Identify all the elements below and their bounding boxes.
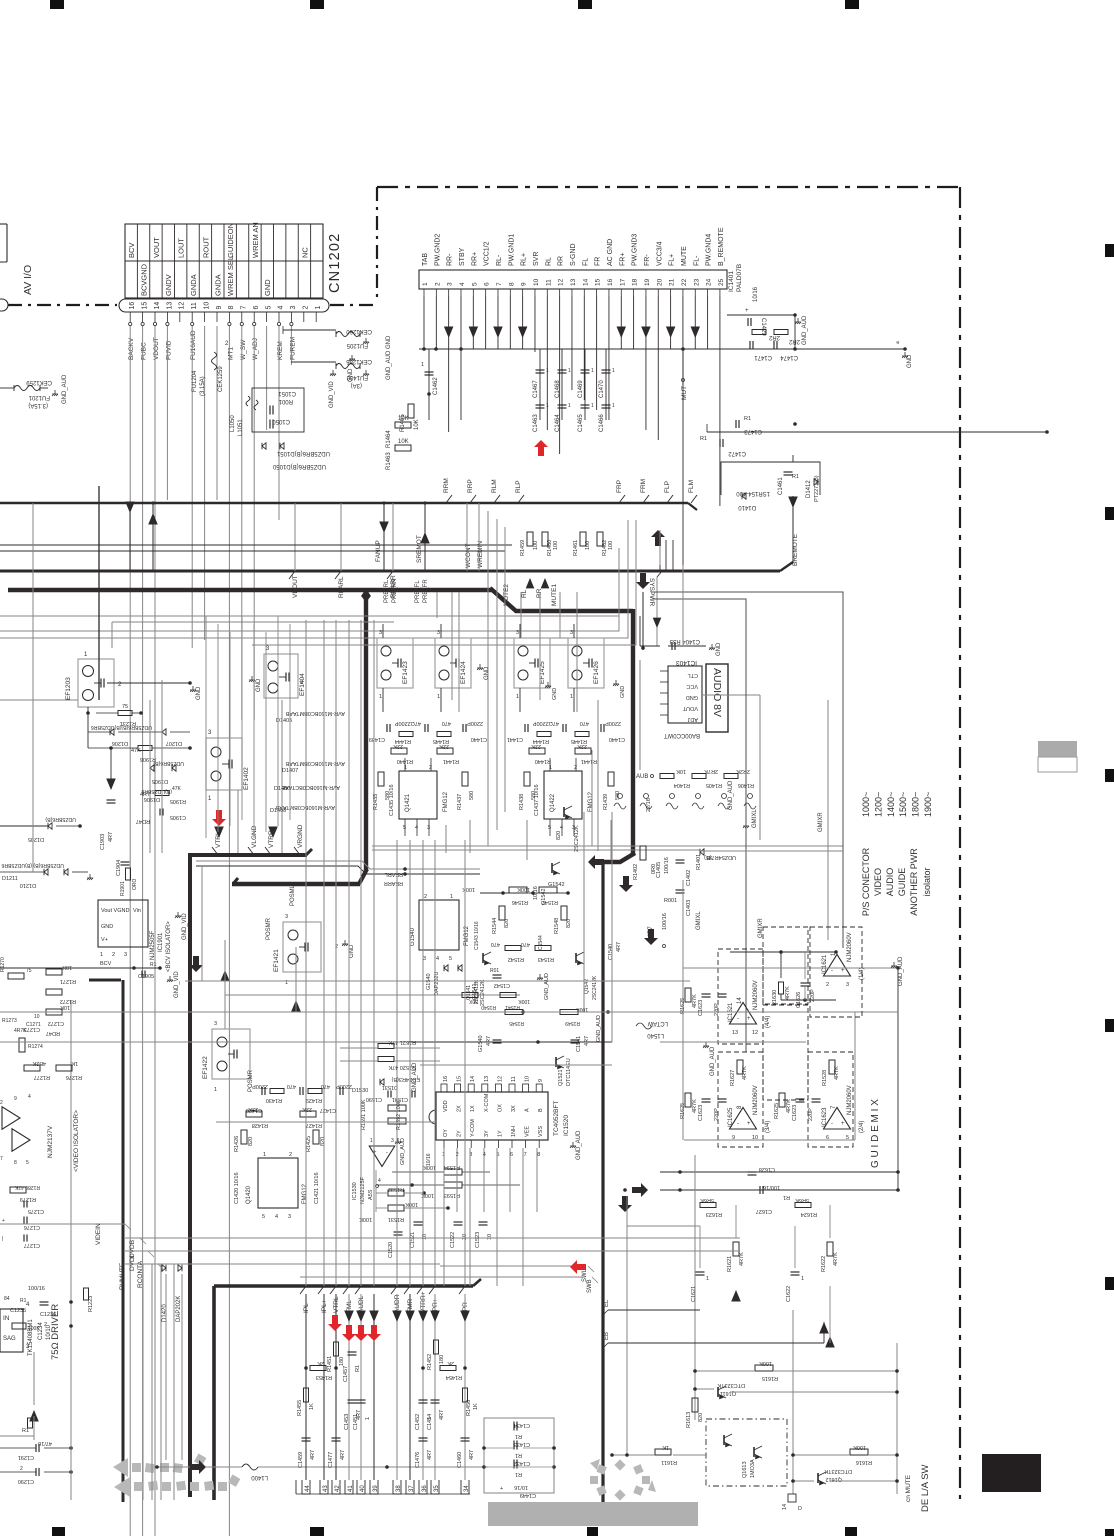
svg-text:IC1625: IC1625 (728, 1107, 734, 1127)
svg-text:PW.GND3: PW.GND3 (632, 234, 639, 266)
svg-text:EDZ4R3(B): EDZ4R3(B) (391, 1076, 420, 1082)
svg-text:24: 24 (706, 278, 713, 286)
svg-text:22K: 22K (248, 1106, 258, 1112)
svg-text:4R7K: 4R7K (742, 1066, 748, 1080)
svg-text:C1291: C1291 (18, 1454, 34, 1460)
svg-text:GND: GND (196, 686, 202, 700)
svg-text:3: 3 (214, 1021, 217, 1027)
svg-text:R1: R1 (700, 436, 707, 442)
svg-text:AC GND: AC GND (607, 239, 614, 266)
svg-text:12: 12 (179, 302, 186, 310)
svg-text:3: 3 (290, 306, 297, 310)
svg-text:<BCV ISOLATOR>: <BCV ISOLATOR> (166, 921, 172, 972)
svg-text:Q1611: Q1611 (720, 1390, 736, 1396)
svg-text:RL: RL (545, 257, 552, 266)
svg-text:C1471: C1471 (754, 354, 772, 360)
svg-text:MUT: MUT (681, 386, 688, 400)
svg-text:22K: 22K (302, 1106, 312, 1112)
svg-text:100/16: 100/16 (763, 1184, 780, 1190)
svg-text:C1452: C1452 (415, 1414, 421, 1430)
svg-text:R1544: R1544 (492, 918, 498, 934)
svg-text:C1544: C1544 (538, 935, 544, 950)
svg-text:38: 38 (396, 1485, 402, 1492)
svg-text:W_SW: W_SW (240, 339, 247, 360)
svg-text:R1273: R1273 (2, 1018, 17, 1024)
svg-text:470: 470 (287, 1083, 296, 1089)
svg-text:4: 4 (560, 825, 563, 831)
svg-text:R1901: R1901 (120, 881, 126, 896)
svg-text:GND: GND (907, 354, 913, 368)
svg-text:5: 5 (471, 282, 478, 286)
svg-text:REARL: REARL (385, 871, 403, 877)
svg-text:FRM: FRM (640, 479, 647, 493)
svg-text:BA00CC0WT: BA00CC0WT (664, 732, 700, 738)
svg-text:SAG: SAG (3, 1336, 16, 1342)
svg-text:2: 2 (826, 982, 829, 988)
svg-text:IC1403: IC1403 (676, 659, 697, 666)
svg-text:GND_AUD: GND_AUD (710, 1046, 716, 1076)
svg-text:4R7K: 4R7K (739, 1252, 745, 1266)
svg-text:RRM: RRM (443, 478, 450, 493)
svg-text:RR+: RR+ (471, 252, 478, 266)
svg-text:C1591: C1591 (392, 1096, 408, 1102)
svg-text:GND_AUD: GND_AUD (596, 1015, 602, 1042)
svg-text:C1467: C1467 (533, 380, 539, 398)
svg-text:3: 3 (285, 914, 288, 920)
svg-text:7: 7 (496, 282, 503, 286)
svg-text:C1434: C1434 (514, 1422, 530, 1428)
svg-text:C1464: C1464 (555, 414, 561, 432)
svg-text:R1: R1 (792, 474, 799, 480)
svg-text:100K: 100K (853, 1444, 866, 1450)
svg-text:MUTE1: MUTE1 (551, 584, 558, 606)
svg-text:R1591 100K: R1591 100K (361, 1099, 367, 1130)
svg-text:BCV: BCV (100, 961, 112, 967)
svg-text:1: 1 (612, 368, 615, 374)
svg-text:5R6K: 5R6K (700, 1197, 714, 1203)
svg-text:820: 820 (504, 919, 510, 928)
svg-text:2: 2 (335, 944, 338, 950)
svg-text:RL-: RL- (496, 254, 503, 266)
svg-text:10K: 10K (62, 964, 72, 970)
svg-text:FU1400: FU1400 (346, 374, 368, 380)
svg-text:NJM2060V: NJM2060V (753, 1085, 759, 1115)
svg-text:1K: 1K (309, 1403, 315, 1410)
svg-text:C1469: C1469 (578, 380, 584, 398)
svg-text:C1466: C1466 (599, 414, 605, 432)
svg-text:0R0: 0R0 (651, 864, 657, 874)
svg-text:CTL: CTL (688, 672, 698, 678)
svg-text:9: 9 (538, 1079, 544, 1082)
svg-text:15: 15 (457, 1076, 463, 1082)
svg-text:PALD07B: PALD07B (736, 264, 743, 292)
svg-text:Q1422: Q1422 (550, 793, 556, 812)
svg-text:21: 21 (669, 278, 676, 286)
svg-text:REARL: REARL (338, 576, 345, 598)
svg-text:R1542: R1542 (508, 956, 524, 962)
svg-text:R1611: R1611 (661, 1459, 677, 1465)
svg-text:FLP: FLP (664, 481, 671, 493)
svg-text:4R7: 4R7 (310, 1450, 316, 1460)
svg-text:1K: 1K (71, 1060, 78, 1066)
svg-text:+: + (500, 1486, 503, 1492)
svg-text:CEK1286: CEK1286 (346, 358, 372, 364)
svg-text:7: 7 (524, 1152, 527, 1158)
svg-text:1900~: 1900~ (923, 792, 933, 817)
svg-text:R1274: R1274 (28, 1044, 43, 1050)
svg-text:A5S: A5S (368, 1189, 374, 1200)
svg-text:2200P: 2200P (605, 720, 621, 726)
svg-text:FRP: FRP (616, 480, 623, 493)
svg-text:2200P: 2200P (467, 720, 483, 726)
svg-text:1K: 1K (662, 1444, 669, 1450)
svg-text:R001: R001 (664, 898, 677, 904)
svg-text:ROUT: ROUT (201, 236, 210, 258)
svg-text:TK15408BM1: TK15408BM1 (28, 1319, 34, 1356)
svg-text:FR+: FR+ (619, 253, 626, 266)
svg-text:100: 100 (553, 541, 559, 550)
svg-text:C1421 10/16: C1421 10/16 (314, 1173, 320, 1205)
svg-text:Vin: Vin (133, 908, 141, 914)
svg-text:1: 1 (801, 1276, 804, 1282)
svg-text:IC1520: IC1520 (563, 1115, 570, 1136)
svg-text:FR: FR (595, 257, 602, 266)
svg-text:40: 40 (360, 1485, 366, 1492)
svg-text:R1441: R1441 (443, 758, 459, 764)
svg-text:R1426: R1426 (234, 1136, 240, 1152)
svg-text:4: 4 (275, 1214, 278, 1220)
svg-text:OY: OY (443, 1129, 449, 1137)
svg-text:RL: RL (521, 589, 528, 598)
svg-text:C1449: C1449 (520, 1492, 536, 1498)
svg-text:IC1623: IC1623 (822, 1107, 828, 1127)
svg-text:DAP202K: DAP202K (176, 1296, 182, 1322)
svg-text:IC1621: IC1621 (822, 954, 828, 974)
svg-text:DE L/A SW: DE L/A SW (920, 1464, 931, 1512)
svg-text:R1547: R1547 (542, 899, 558, 905)
svg-text:580: 580 (531, 791, 537, 800)
svg-text:R1405: R1405 (706, 782, 722, 788)
svg-text:C1403: C1403 (686, 900, 692, 916)
svg-text:7: 7 (0, 1156, 3, 1162)
svg-text:DTC114EU: DTC114EU (566, 1058, 572, 1086)
svg-text:4R7: 4R7 (140, 792, 150, 798)
svg-text:D1205: D1205 (28, 836, 44, 842)
svg-text:R1: R1 (744, 416, 751, 422)
svg-text:R1280 47K: R1280 47K (14, 1184, 40, 1190)
svg-text:GND_AUD: GND_AUD (802, 315, 808, 345)
svg-text:C1476: C1476 (415, 1452, 421, 1468)
svg-text:FMG12: FMG12 (443, 791, 449, 812)
svg-text:3Y: 3Y (484, 1130, 490, 1137)
svg-text:100K: 100K (405, 1201, 418, 1207)
svg-text:FR-: FR- (644, 254, 651, 266)
svg-text:D1210: D1210 (20, 882, 36, 888)
svg-text:R1594: R1594 (444, 1164, 460, 1170)
svg-text:VDOUT: VDOUT (292, 575, 299, 598)
svg-text:22K: 22K (531, 743, 541, 749)
svg-text:4: 4 (28, 1094, 31, 1100)
svg-text:C1051: C1051 (278, 390, 296, 396)
svg-text:RLM: RLM (491, 479, 498, 493)
svg-text:GND: GND (716, 642, 722, 656)
svg-text:PW.GND4: PW.GND4 (706, 234, 713, 266)
svg-text:L1050: L1050 (230, 415, 236, 432)
svg-text:1: 1 (570, 694, 573, 700)
svg-text:3: 3 (437, 630, 440, 636)
svg-text:C1460: C1460 (457, 1452, 463, 1468)
svg-text:5: 5 (449, 956, 452, 962)
svg-text:CN1202: CN1202 (327, 233, 343, 293)
svg-text:2: 2 (574, 765, 577, 771)
svg-text:C1276: C1276 (24, 1224, 40, 1230)
svg-text:R1624: R1624 (801, 1211, 817, 1217)
svg-text:25: 25 (718, 278, 725, 286)
svg-text:EF1423: EF1423 (402, 661, 409, 684)
svg-text:-: - (831, 968, 833, 974)
svg-text:C1905: C1905 (138, 974, 154, 980)
svg-text:C1623: C1623 (792, 1105, 798, 1121)
svg-text:9: 9 (521, 282, 528, 286)
svg-text:(3A): (3A) (351, 382, 362, 388)
svg-text:DTC323TK: DTC323TK (717, 1382, 745, 1388)
svg-text:3: 3 (124, 952, 127, 958)
svg-text:VRGND: VRGND (297, 824, 304, 848)
svg-text:1: 1 (568, 403, 571, 409)
svg-text:C1454: C1454 (427, 1414, 433, 1430)
svg-text:R1: R1 (355, 1365, 361, 1372)
svg-text:1: 1 (568, 368, 571, 374)
svg-text:R1621: R1621 (727, 1256, 733, 1272)
svg-text:VDOUT: VDOUT (153, 337, 160, 360)
svg-text:12: 12 (752, 1030, 758, 1036)
svg-text:NJM2060V: NJM2060V (847, 932, 853, 962)
svg-text:2: 2 (434, 282, 441, 286)
svg-text:NJM2060V: NJM2060V (753, 980, 759, 1010)
svg-text:1000~: 1000~ (861, 792, 871, 817)
svg-text:3: 3 (846, 982, 849, 988)
svg-text:R1455: R1455 (297, 1400, 303, 1416)
svg-text:R1428: R1428 (252, 1122, 268, 1128)
svg-text:VOUT: VOUT (682, 705, 698, 711)
svg-text:D1207: D1207 (166, 740, 182, 746)
svg-text:POSMR: POSMR (266, 917, 272, 940)
svg-text:1X: 1X (470, 1105, 476, 1112)
svg-text:GND: GND (349, 944, 355, 958)
svg-text:(3/4): (3/4) (765, 1121, 771, 1133)
svg-text:4: 4 (278, 306, 285, 310)
svg-text:VEE: VEE (525, 1126, 531, 1137)
svg-text:MUTE2: MUTE2 (503, 584, 510, 606)
svg-text:FLM: FLM (688, 480, 695, 493)
svg-text:RVMUTE: RVMUTE (119, 1262, 126, 1290)
svg-text:NC: NC (300, 247, 309, 258)
svg-text:1: 1 (591, 403, 594, 409)
svg-text:20: 20 (656, 278, 663, 286)
svg-text:17: 17 (619, 278, 626, 286)
svg-text:5: 5 (262, 1214, 265, 1220)
svg-text:S-GND: S-GND (570, 243, 577, 266)
svg-text:23: 23 (693, 278, 700, 286)
svg-text:10: 10 (487, 1234, 493, 1240)
svg-text:1: 1 (612, 403, 615, 409)
svg-text:R1461: R1461 (573, 540, 579, 556)
svg-text:3: 3 (391, 1138, 394, 1144)
svg-text:V+: V+ (101, 937, 108, 943)
svg-text:MT1: MT1 (227, 347, 234, 360)
svg-text:10K: 10K (676, 768, 686, 774)
svg-text:A: A (525, 1108, 531, 1112)
svg-text:12: 12 (497, 1076, 503, 1082)
svg-text:580: 580 (385, 791, 391, 800)
svg-text:EB: EB (604, 1332, 610, 1340)
svg-text:75: 75 (26, 968, 32, 974)
svg-text:GND: GND (620, 686, 626, 698)
svg-text:470: 470 (491, 941, 500, 947)
svg-text:2: 2 (429, 765, 432, 771)
svg-text:R1622: R1622 (821, 1256, 827, 1272)
svg-text:5: 5 (26, 1160, 29, 1166)
svg-text:R1459: R1459 (520, 540, 526, 556)
svg-text:6: 6 (253, 306, 260, 310)
svg-text:C1457: C1457 (343, 1366, 349, 1382)
svg-text:GNDA: GNDA (189, 274, 198, 296)
svg-text:220P: 220P (714, 1108, 720, 1121)
svg-text:3: 3 (427, 825, 430, 831)
svg-text:D1211: D1211 (2, 876, 18, 882)
svg-text:REARR: REARR (384, 880, 403, 886)
svg-text:R1279: R1279 (20, 1196, 36, 1202)
svg-text:8: 8 (537, 1152, 540, 1158)
svg-text:C1235: C1235 (10, 1308, 26, 1314)
svg-text:C1404 R33: C1404 R33 (669, 638, 700, 644)
svg-text:C1622: C1622 (786, 1286, 792, 1302)
svg-text:100/16: 100/16 (662, 913, 668, 930)
svg-text:1: 1 (516, 694, 519, 700)
svg-text:R1440: R1440 (535, 758, 551, 764)
svg-text:4: 4 (436, 956, 439, 962)
svg-text:L1051: L1051 (238, 419, 244, 436)
svg-text:C1050: C1050 (272, 418, 290, 424)
svg-text:22K: 22K (439, 743, 449, 749)
svg-text:R1613: R1613 (686, 1412, 692, 1428)
svg-text:2: 2 (302, 306, 309, 310)
svg-text:VIDEIN: VIDEIN (95, 1223, 102, 1245)
svg-text:10/16: 10/16 (514, 1484, 528, 1490)
svg-text:R1545: R1545 (509, 1020, 524, 1026)
svg-text:13: 13 (570, 278, 577, 286)
svg-text:R1546: R1546 (512, 899, 528, 905)
svg-text:Q1421: Q1421 (405, 793, 411, 812)
svg-text:15: 15 (595, 278, 602, 286)
svg-text:C1472: C1472 (728, 450, 746, 456)
svg-text:100K: 100K (576, 1006, 588, 1012)
svg-text:AV I/O: AV I/O (22, 265, 34, 295)
svg-text:2: 2 (44, 1322, 47, 1328)
svg-text:10K: 10K (398, 416, 409, 422)
svg-text:16: 16 (607, 278, 614, 286)
svg-text:1: 1 (365, 1417, 371, 1420)
svg-text:R1625: R1625 (774, 1103, 780, 1119)
svg-text:VLGND: VLGND (251, 825, 258, 848)
svg-text:9: 9 (216, 306, 223, 310)
svg-text:220P: 220P (714, 1003, 720, 1016)
svg-text:PRE_FL: PRE_FL (415, 580, 421, 603)
svg-text:R1277: R1277 (34, 1074, 50, 1080)
svg-text:isolator: isolator (922, 867, 932, 896)
svg-text:FMG12: FMG12 (302, 1183, 308, 1204)
svg-text:22/16: 22/16 (646, 798, 652, 812)
svg-text:820: 820 (248, 1137, 254, 1146)
svg-text:6: 6 (484, 282, 491, 286)
svg-text:VOUT: VOUT (152, 237, 161, 258)
svg-text:2X: 2X (457, 1105, 463, 1112)
svg-text:10/16: 10/16 (753, 286, 759, 302)
svg-text:4R7: 4R7 (469, 1450, 475, 1460)
svg-text:R1401: R1401 (696, 854, 702, 870)
svg-text:8: 8 (508, 282, 515, 286)
svg-text:C1272: C1272 (48, 1020, 64, 1026)
svg-text:NJM2137V: NJM2137V (47, 1125, 54, 1158)
svg-text:C1540: C1540 (608, 944, 614, 960)
svg-text:R1452: R1452 (427, 1354, 433, 1370)
svg-text:C1521: C1521 (410, 1232, 416, 1248)
svg-text:FL: FL (582, 258, 589, 266)
svg-text:19: 19 (644, 278, 651, 286)
svg-text:C1459: C1459 (298, 1452, 304, 1468)
svg-text:R1276: R1276 (66, 1074, 82, 1080)
svg-text:R1429: R1429 (306, 1097, 322, 1103)
svg-text:FU1205: FU1205 (346, 342, 368, 348)
svg-text:R1454: R1454 (446, 1374, 462, 1380)
svg-text:1: 1 (379, 694, 382, 700)
svg-text:EF1422: EF1422 (202, 1056, 209, 1079)
svg-text:IN: IN (3, 1315, 10, 1322)
svg-text:10: 10 (525, 1076, 531, 1082)
svg-text:10K: 10K (398, 439, 409, 445)
svg-text:R1627: R1627 (730, 1070, 736, 1086)
svg-text:10: 10 (34, 1014, 40, 1020)
svg-text:4R7: 4R7 (584, 1036, 590, 1046)
svg-text:100K: 100K (462, 886, 475, 892)
svg-text:GMIXL: GMIXL (696, 911, 702, 930)
svg-text:37: 37 (409, 1485, 415, 1492)
svg-text:4R7: 4R7 (439, 1410, 445, 1420)
svg-text:1: 1 (422, 282, 429, 286)
svg-text:13: 13 (732, 1030, 738, 1036)
svg-text:1400~: 1400~ (886, 792, 896, 817)
svg-text:47K: 47K (172, 786, 182, 792)
svg-text:1: 1 (100, 952, 103, 958)
svg-text:3: 3 (379, 630, 382, 636)
svg-text:L1540: L1540 (647, 1032, 664, 1038)
svg-text:TC4052BFT: TC4052BFT (553, 1101, 560, 1136)
svg-text:FL+: FL+ (669, 254, 676, 266)
svg-text:RRP: RRP (467, 479, 474, 493)
svg-text:1: 1 (437, 694, 440, 700)
svg-text:GND_AUD GND: GND_AUD GND (386, 335, 392, 380)
svg-text:UDZ54R7(B): UDZ54R7(B) (704, 854, 736, 860)
svg-text:43: 43 (323, 1485, 329, 1492)
svg-text:GND: GND (686, 694, 698, 700)
svg-text:10K: 10K (414, 419, 420, 430)
svg-text:C1903: C1903 (100, 834, 106, 850)
svg-text:2: 2 (112, 952, 115, 958)
svg-text:AUDIO: AUDIO (885, 868, 895, 897)
svg-text:D1530: D1530 (352, 1088, 368, 1094)
svg-text:GUIDEON: GUIDEON (226, 223, 235, 258)
svg-text:30X: 30X (468, 998, 478, 1004)
